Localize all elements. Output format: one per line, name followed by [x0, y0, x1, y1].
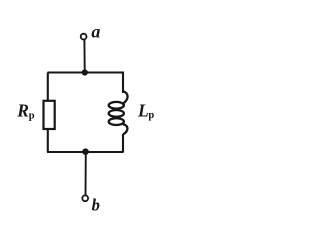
node (junction dot) top [82, 69, 88, 75]
wire top horizontal [48, 71, 124, 73]
svg-text:a: a [91, 21, 100, 41]
resistor Rp [44, 101, 55, 129]
inductor Lp [109, 91, 128, 134]
svg-text:R: R [16, 100, 29, 120]
wire from terminal a down to top node [83, 40, 85, 70]
wire left vertical lower [47, 130, 49, 152]
terminal a circle [81, 34, 87, 40]
svg-text:p: p [148, 110, 154, 121]
wire left vertical upper [47, 73, 49, 101]
wire right vertical lower [122, 134, 124, 153]
wire from bottom node down to terminal b [85, 152, 87, 195]
wire bottom horizontal [47, 151, 123, 153]
svg-text:b: b [92, 195, 100, 214]
node (junction dot) bottom [82, 148, 89, 155]
svg-text:L: L [137, 100, 149, 120]
terminal b circle [82, 195, 88, 201]
wire right vertical upper [122, 72, 124, 94]
svg-text:p: p [29, 111, 35, 122]
